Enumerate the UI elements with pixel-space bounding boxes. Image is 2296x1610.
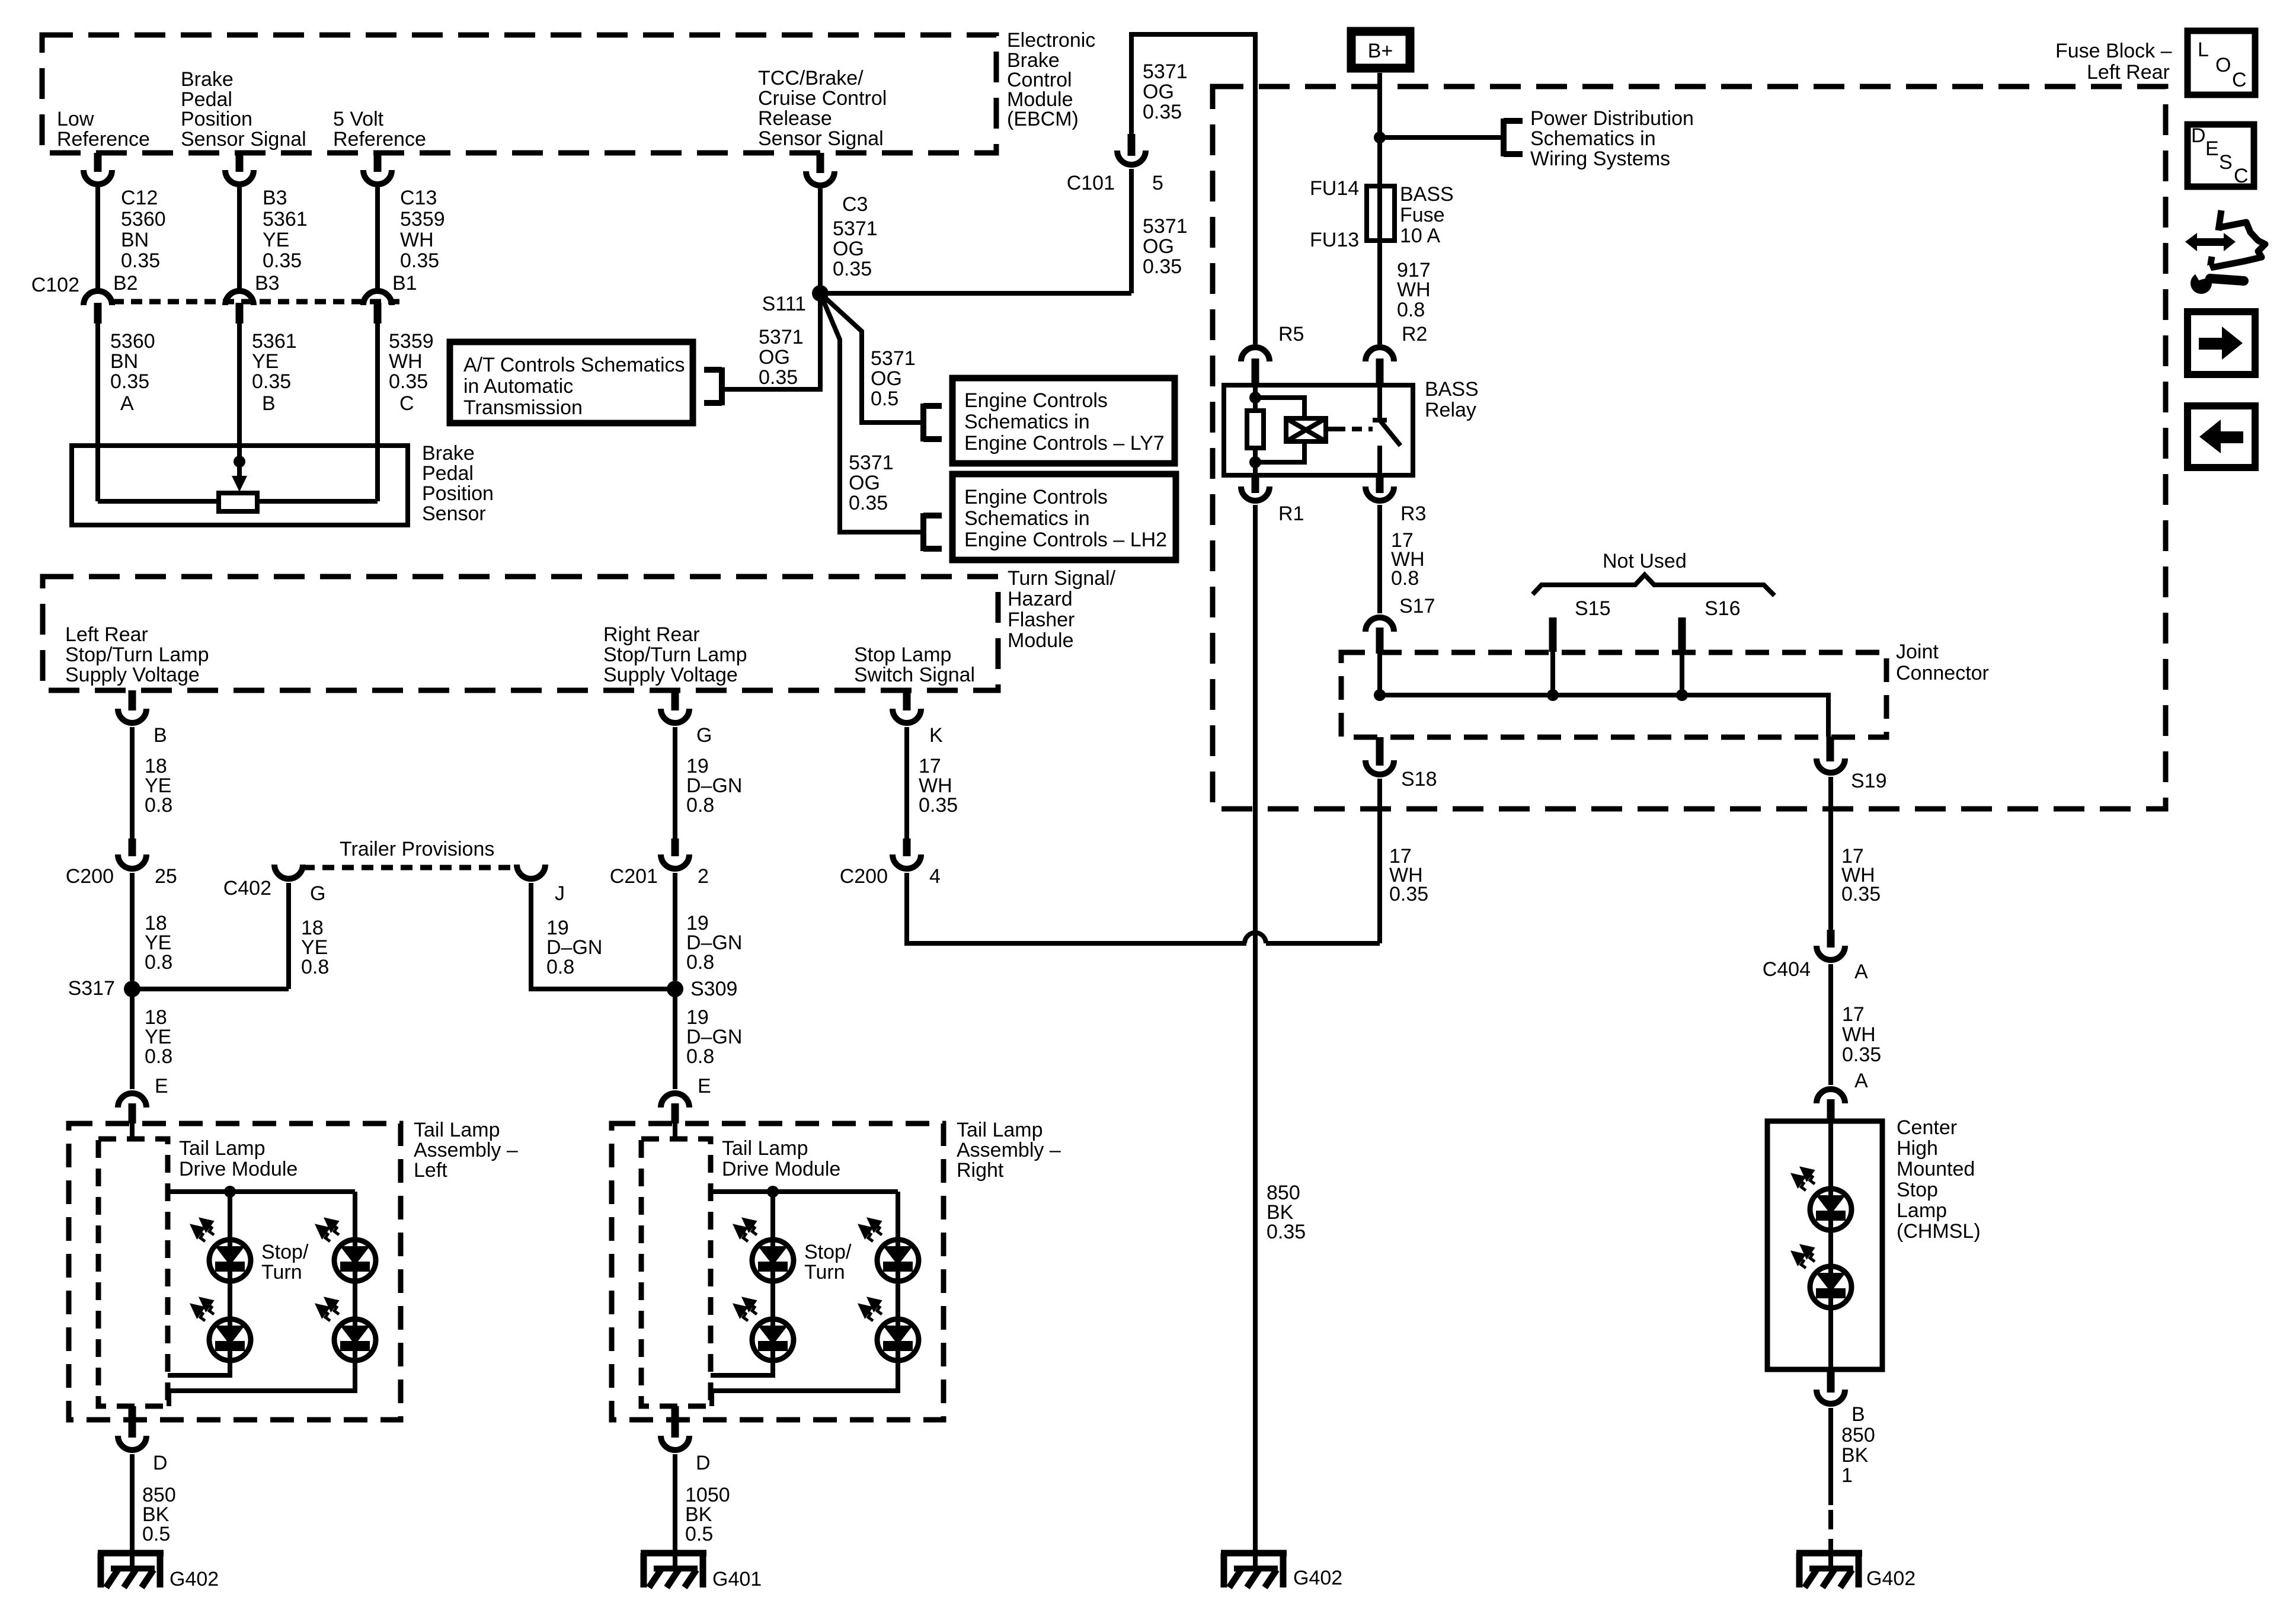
svg-text:G402: G402 bbox=[1866, 1567, 1916, 1590]
svg-text:Engine Controls – LH2: Engine Controls – LH2 bbox=[964, 529, 1167, 551]
pin C200-25 stub bbox=[129, 838, 136, 856]
svg-text:5 Volt: 5 Volt bbox=[333, 108, 384, 130]
svg-text:S317: S317 bbox=[68, 977, 115, 1000]
wire 5361 YE lower bbox=[237, 324, 242, 457]
svg-text:Connector: Connector bbox=[1896, 662, 1989, 684]
forward arrow bbox=[2199, 338, 2223, 350]
svg-text:D: D bbox=[2191, 124, 2206, 147]
back arrow bbox=[2221, 431, 2243, 443]
svg-text:0.8: 0.8 bbox=[1397, 299, 1425, 321]
svg-text:K: K bbox=[929, 724, 943, 747]
svg-text:0.35: 0.35 bbox=[110, 370, 149, 393]
svg-text:B: B bbox=[154, 724, 167, 747]
wire 5359 WH upper bbox=[375, 187, 380, 291]
svg-text:0.8: 0.8 bbox=[686, 1045, 714, 1068]
fuse block dashed box bbox=[1213, 87, 2166, 809]
svg-text:Joint: Joint bbox=[1896, 641, 1939, 663]
wiper junction dot bbox=[234, 456, 245, 468]
pin E stub bbox=[129, 1103, 136, 1124]
wire S19 17 WH 0.35 bbox=[1828, 777, 1833, 930]
svg-text:Power Distribution: Power Distribution bbox=[1530, 107, 1694, 130]
svg-text:Low: Low bbox=[57, 108, 94, 130]
svg-text:High: High bbox=[1897, 1137, 1938, 1160]
svg-text:0.5: 0.5 bbox=[685, 1523, 713, 1545]
svg-text:C13: C13 bbox=[400, 187, 437, 209]
svg-text:WH: WH bbox=[389, 350, 423, 373]
connector R5 cap bbox=[1241, 347, 1269, 361]
svg-text:Schematics in: Schematics in bbox=[1530, 127, 1656, 150]
wire S17 into joint connector bbox=[1377, 654, 1382, 695]
pin R2 stub bbox=[1376, 359, 1384, 385]
svg-text:5371: 5371 bbox=[759, 326, 804, 348]
LOC icon box bbox=[2188, 31, 2255, 95]
EBCM module dashed box bbox=[42, 35, 996, 153]
splice S309 dot bbox=[667, 981, 683, 997]
svg-text:C102: C102 bbox=[31, 274, 79, 296]
svg-text:R5: R5 bbox=[1278, 323, 1304, 345]
svg-text:0.35: 0.35 bbox=[849, 492, 888, 514]
wire S16 leg bbox=[1680, 651, 1684, 695]
svg-text:G402: G402 bbox=[1293, 1567, 1342, 1589]
svg-text:E: E bbox=[155, 1075, 168, 1097]
wire inside sensor right bbox=[257, 499, 378, 504]
svg-text:S17: S17 bbox=[1399, 595, 1435, 617]
pin C200-4 stub bbox=[903, 838, 911, 856]
svg-text:J: J bbox=[555, 882, 565, 905]
CHMSL lamp box bbox=[1767, 1121, 1882, 1369]
svg-text:1: 1 bbox=[1841, 1464, 1853, 1487]
svg-text:0.8: 0.8 bbox=[686, 951, 714, 974]
wire hop to S18 corner bbox=[1266, 941, 1380, 946]
wire 5360 BN upper bbox=[95, 187, 100, 291]
svg-text:0.35: 0.35 bbox=[252, 370, 291, 393]
connector R2 cap bbox=[1366, 347, 1394, 361]
svg-text:S111: S111 bbox=[762, 293, 806, 315]
svg-text:Brake: Brake bbox=[181, 68, 234, 91]
pin B3 stub bbox=[236, 153, 244, 172]
connector CHMSL cap bbox=[1817, 1089, 1845, 1103]
ground symbol bbox=[98, 1553, 164, 1587]
svg-text:25: 25 bbox=[155, 865, 177, 888]
svg-text:Flasher: Flasher bbox=[1008, 609, 1075, 631]
svg-text:Hazard: Hazard bbox=[1008, 588, 1073, 610]
svg-text:5371: 5371 bbox=[871, 347, 916, 370]
svg-text:Right Rear: Right Rear bbox=[603, 623, 700, 646]
wiper arrow bbox=[237, 462, 242, 476]
svg-text:0.35: 0.35 bbox=[1389, 883, 1428, 905]
svg-text:Sensor Signal: Sensor Signal bbox=[758, 127, 884, 150]
svg-text:0.35: 0.35 bbox=[1841, 883, 1881, 905]
svg-text:0.8: 0.8 bbox=[301, 956, 329, 978]
svg-text:Schematics in: Schematics in bbox=[964, 507, 1090, 530]
svg-text:A: A bbox=[120, 392, 134, 415]
svg-text:0.35: 0.35 bbox=[1842, 1044, 1881, 1066]
tail lamp assembly right (shapes reuse) bbox=[612, 1093, 944, 1587]
svg-text:Stop Lamp: Stop Lamp bbox=[854, 644, 951, 666]
connector R1 cup bbox=[1241, 486, 1269, 501]
svg-text:A/T Controls Schematics: A/T Controls Schematics bbox=[463, 354, 685, 376]
svg-text:Transmission: Transmission bbox=[463, 396, 583, 419]
svg-text:Tail Lamp: Tail Lamp bbox=[179, 1137, 266, 1160]
svg-text:Switch Signal: Switch Signal bbox=[854, 664, 975, 686]
svg-text:5360: 5360 bbox=[110, 330, 155, 353]
svg-text:YE: YE bbox=[263, 229, 289, 251]
svg-text:BN: BN bbox=[121, 229, 149, 251]
svg-text:S19: S19 bbox=[1851, 770, 1887, 792]
connector D cup bbox=[118, 1436, 146, 1450]
svg-text:Reference: Reference bbox=[57, 128, 150, 151]
svg-text:0.35: 0.35 bbox=[1143, 101, 1182, 123]
svg-text:Assembly –: Assembly – bbox=[414, 1139, 518, 1161]
node relay dot lower bbox=[1249, 456, 1261, 468]
power distribution reference bracket bbox=[1504, 119, 1523, 156]
LY7 reference bracket bbox=[923, 404, 942, 441]
pin C12 stub bbox=[94, 153, 102, 172]
splice S111 dot bbox=[812, 285, 829, 302]
connector G cup bbox=[661, 709, 689, 723]
svg-text:0.8: 0.8 bbox=[686, 794, 714, 817]
svg-text:S18: S18 bbox=[1401, 768, 1437, 790]
svg-text:WH: WH bbox=[400, 229, 434, 251]
svg-text:0.35: 0.35 bbox=[833, 258, 872, 280]
svg-text:FU13: FU13 bbox=[1310, 229, 1359, 251]
LED stop/turn 2 bbox=[194, 1300, 251, 1361]
connector C402 cup bbox=[274, 865, 303, 879]
svg-text:BASS: BASS bbox=[1425, 378, 1479, 401]
svg-text:D: D bbox=[696, 1452, 711, 1474]
svg-text:0.5: 0.5 bbox=[142, 1523, 170, 1545]
svg-text:BASS: BASS bbox=[1400, 183, 1454, 206]
svg-text:B+: B+ bbox=[1368, 40, 1393, 62]
svg-text:Tail Lamp: Tail Lamp bbox=[957, 1119, 1043, 1141]
wire 850 BK 0.5 to ground bbox=[130, 1454, 135, 1553]
svg-text:Supply Voltage: Supply Voltage bbox=[65, 664, 200, 686]
svg-text:2: 2 bbox=[698, 865, 709, 888]
svg-text:B1: B1 bbox=[392, 272, 417, 295]
wire B+ down to fuse bbox=[1377, 73, 1382, 186]
wire inside sensor left bbox=[98, 499, 219, 504]
svg-text:in Automatic: in Automatic bbox=[463, 375, 573, 398]
svg-text:Sensor Signal: Sensor Signal bbox=[181, 128, 306, 151]
svg-text:Cruise Control: Cruise Control bbox=[758, 87, 887, 110]
LED stop/turn 3 bbox=[319, 1221, 376, 1281]
svg-text:5371: 5371 bbox=[1143, 60, 1188, 83]
svg-text:Position: Position bbox=[422, 482, 494, 505]
svg-text:5371: 5371 bbox=[1143, 215, 1188, 238]
svg-text:Release: Release bbox=[758, 107, 832, 130]
svg-text:OG: OG bbox=[849, 472, 880, 494]
svg-text:0.35: 0.35 bbox=[389, 370, 428, 393]
svg-text:Pedal: Pedal bbox=[422, 462, 474, 485]
wire 850 BK 1 dashed tail bbox=[1828, 1510, 1833, 1553]
svg-text:0.8: 0.8 bbox=[546, 956, 574, 978]
wire R1 to ground bbox=[1253, 505, 1258, 1553]
pin C404 stub bbox=[1827, 930, 1835, 948]
svg-text:FU14: FU14 bbox=[1310, 177, 1359, 200]
svg-text:Stop: Stop bbox=[1897, 1179, 1938, 1201]
svg-text:5: 5 bbox=[1152, 172, 1163, 194]
svg-text:R3: R3 bbox=[1400, 502, 1426, 525]
engine controls LH2 box bbox=[952, 474, 1176, 560]
svg-text:Stop/: Stop/ bbox=[261, 1241, 309, 1263]
wire S317 to E bbox=[130, 989, 135, 1089]
connector C102 dashed line bbox=[113, 299, 403, 305]
LED CHMSL 2 bbox=[1795, 1247, 1851, 1308]
pin C stub bbox=[374, 303, 382, 324]
engine controls LY7 box bbox=[952, 378, 1175, 463]
back arrow icon box bbox=[2188, 406, 2255, 468]
node S17 bus dot bbox=[1374, 689, 1386, 701]
svg-text:WH: WH bbox=[1397, 279, 1431, 301]
pin K stub bbox=[903, 690, 911, 710]
svg-text:Relay: Relay bbox=[1425, 399, 1476, 421]
wire 18 YE 0.8 to S317 bbox=[130, 873, 135, 981]
wire E into drive module bbox=[130, 1124, 135, 1139]
pin A stub bbox=[94, 303, 102, 324]
svg-text:0.35: 0.35 bbox=[400, 249, 439, 272]
svg-text:C101: C101 bbox=[1067, 172, 1115, 194]
pin S16 stub bbox=[1678, 617, 1686, 652]
joint connector bus bar bbox=[1380, 695, 1828, 737]
forward arrow icon box bbox=[2188, 312, 2255, 375]
svg-text:B2: B2 bbox=[113, 272, 138, 295]
connector CHMSL-B cup bbox=[1817, 1390, 1845, 1404]
pin CHMSL-B stub bbox=[1827, 1369, 1835, 1393]
wire to power distribution bracket bbox=[1380, 135, 1504, 140]
connector B cup bbox=[118, 709, 146, 723]
connector C200-4 cup bbox=[893, 854, 921, 869]
connector C3 cup bbox=[806, 171, 834, 185]
svg-text:C12: C12 bbox=[121, 187, 158, 209]
svg-text:OG: OG bbox=[871, 367, 902, 390]
tail lamp drive module dashed box bbox=[98, 1139, 168, 1406]
svg-text:B3: B3 bbox=[255, 272, 280, 295]
svg-text:D: D bbox=[153, 1452, 168, 1474]
svg-text:Drive Module: Drive Module bbox=[179, 1158, 298, 1180]
svg-text:0.35: 0.35 bbox=[263, 249, 302, 272]
svg-text:5361: 5361 bbox=[263, 208, 308, 231]
svg-text:G: G bbox=[696, 724, 712, 747]
connector C200-25 cup bbox=[118, 854, 146, 869]
wrench icon bbox=[2191, 265, 2244, 294]
svg-text:BK: BK bbox=[1841, 1444, 1869, 1467]
pin B stub bbox=[129, 690, 136, 710]
svg-text:Stop/: Stop/ bbox=[804, 1241, 852, 1263]
wire 17 WH 0.35 (K) bbox=[904, 727, 909, 838]
svg-text:5361: 5361 bbox=[252, 330, 297, 353]
wire 17 WH 0.35 (C404 to lamp) bbox=[1828, 964, 1833, 1085]
LED CHMSL 1 bbox=[1795, 1170, 1851, 1230]
vehicle view icon bbox=[2210, 210, 2265, 268]
svg-text:C: C bbox=[2232, 69, 2247, 91]
svg-text:Tail Lamp: Tail Lamp bbox=[722, 1137, 808, 1160]
svg-text:R2: R2 bbox=[1402, 323, 1427, 345]
svg-text:10 A: 10 A bbox=[1400, 225, 1440, 247]
not used brace bbox=[1533, 575, 1774, 596]
svg-text:Turn Signal/: Turn Signal/ bbox=[1008, 567, 1116, 590]
wire C101 upper to top bbox=[1131, 34, 1255, 344]
svg-text:C200: C200 bbox=[840, 865, 888, 888]
svg-text:0.8: 0.8 bbox=[145, 1045, 172, 1068]
svg-text:S15: S15 bbox=[1575, 597, 1611, 620]
wire 19 D-GN 0.8 (G) bbox=[673, 727, 677, 838]
svg-text:Not Used: Not Used bbox=[1603, 550, 1687, 572]
wire 917 WH bbox=[1377, 241, 1382, 344]
pin CHMSL-A stub bbox=[1827, 1099, 1835, 1121]
svg-text:E: E bbox=[2205, 137, 2219, 160]
wire 19 D-GN 0.8 to S309 bbox=[673, 873, 677, 981]
brake pedal position sensor box bbox=[72, 446, 408, 525]
relay coil crossed box bbox=[1286, 418, 1326, 441]
svg-text:Turn: Turn bbox=[804, 1261, 845, 1283]
wire C402 drop bbox=[286, 883, 291, 989]
svg-text:Drive Module: Drive Module bbox=[722, 1158, 840, 1180]
svg-text:R1: R1 bbox=[1278, 502, 1304, 525]
svg-text:C201: C201 bbox=[610, 865, 658, 888]
LH2 reference bracket bbox=[923, 513, 942, 551]
pin R5 stub bbox=[1252, 359, 1259, 385]
node S15 bus dot bbox=[1547, 689, 1559, 701]
connector J cup bbox=[517, 865, 545, 879]
wire 5360 BN lower bbox=[95, 324, 100, 501]
svg-text:Center: Center bbox=[1897, 1116, 1957, 1139]
wire S309 to E bbox=[673, 989, 677, 1089]
pin C101-5 stub bbox=[1128, 134, 1136, 156]
connector C102-B3 cap bbox=[225, 291, 254, 305]
connector S18 cup bbox=[1366, 760, 1394, 774]
svg-text:0.35: 0.35 bbox=[1267, 1221, 1306, 1243]
wire LED supply bus bbox=[168, 1192, 355, 1240]
fuse FU14/FU13 element bbox=[1367, 186, 1395, 241]
pin C13 stub bbox=[374, 153, 382, 172]
relay box bbox=[1224, 385, 1413, 475]
pin D stub bbox=[129, 1406, 136, 1438]
svg-text:C402: C402 bbox=[223, 877, 271, 900]
joint connector dashed box bbox=[1341, 652, 1886, 737]
wire LED return 2 bbox=[169, 1361, 355, 1406]
wire crossover hop bbox=[1245, 933, 1266, 943]
svg-text:WH: WH bbox=[1842, 1023, 1876, 1046]
pin C3 stub bbox=[817, 153, 824, 173]
svg-text:4: 4 bbox=[929, 865, 941, 888]
svg-text:Trailer Provisions: Trailer Provisions bbox=[340, 838, 494, 860]
svg-text:Module: Module bbox=[1008, 629, 1074, 652]
svg-text:5360: 5360 bbox=[121, 208, 166, 231]
connector S19 cup bbox=[1817, 758, 1845, 773]
connector C101 cup bbox=[1117, 151, 1146, 165]
relay actuating dashed link bbox=[1335, 427, 1373, 431]
svg-text:Engine Controls: Engine Controls bbox=[964, 486, 1108, 508]
connector C201-2 cup bbox=[661, 854, 689, 869]
svg-text:Supply Voltage: Supply Voltage bbox=[603, 664, 738, 686]
svg-text:5371: 5371 bbox=[833, 217, 878, 240]
wire 5371 OG from C3 bbox=[818, 188, 823, 293]
svg-text:Fuse: Fuse bbox=[1400, 204, 1445, 226]
wire S111 to C101 riser bbox=[820, 291, 1131, 296]
svg-text:Position: Position bbox=[181, 108, 252, 130]
svg-text:B: B bbox=[1851, 1403, 1865, 1426]
wire S111 to LH2 bbox=[820, 293, 923, 532]
svg-text:Mounted: Mounted bbox=[1897, 1158, 1975, 1180]
flasher module dashed box bbox=[43, 577, 998, 690]
node B+ junction dot bbox=[1374, 132, 1386, 143]
svg-text:0.8: 0.8 bbox=[145, 951, 172, 974]
svg-text:0.35: 0.35 bbox=[121, 249, 160, 272]
svg-text:C404: C404 bbox=[1763, 958, 1811, 981]
wire S18 17 WH 0.35 bbox=[1377, 779, 1382, 943]
svg-text:Stop/Turn Lamp: Stop/Turn Lamp bbox=[65, 644, 209, 666]
relay resistor bbox=[1247, 411, 1264, 448]
wire S111 to LY7 bbox=[820, 293, 923, 422]
svg-text:Reference: Reference bbox=[333, 128, 426, 151]
pin C201-2 stub bbox=[671, 838, 679, 856]
svg-text:OG: OG bbox=[759, 346, 790, 369]
svg-text:Brake: Brake bbox=[422, 442, 475, 465]
DESC icon box bbox=[2188, 124, 2254, 187]
svg-text:A: A bbox=[1854, 1070, 1868, 1092]
wire 18 YE 0.8 (B) bbox=[130, 727, 135, 838]
pin R1 stub bbox=[1252, 475, 1259, 493]
relay coil stub bbox=[1326, 427, 1335, 431]
wire CHMSL internal bbox=[1828, 1121, 1833, 1369]
svg-text:0.8: 0.8 bbox=[145, 794, 172, 817]
svg-text:E: E bbox=[698, 1075, 711, 1097]
wire LED return 1 bbox=[168, 1361, 230, 1375]
connector C12 cup bbox=[84, 170, 112, 184]
connector C404 cup bbox=[1817, 946, 1845, 960]
svg-text:Schematics in: Schematics in bbox=[964, 411, 1090, 433]
pin R3 stub bbox=[1376, 475, 1384, 493]
svg-text:0.5: 0.5 bbox=[871, 388, 898, 410]
svg-text:Sensor: Sensor bbox=[422, 502, 486, 525]
svg-text:Turn: Turn bbox=[261, 1261, 302, 1283]
connector E cap bbox=[118, 1093, 146, 1108]
svg-text:G402: G402 bbox=[170, 1568, 219, 1590]
wire LED column 1 bbox=[228, 1240, 232, 1361]
svg-text:C: C bbox=[399, 392, 414, 415]
svg-text:850: 850 bbox=[1841, 1424, 1875, 1446]
svg-text:Tail Lamp: Tail Lamp bbox=[414, 1119, 500, 1141]
svg-text:G: G bbox=[310, 882, 325, 905]
svg-text:Right: Right bbox=[957, 1159, 1004, 1182]
svg-text:Left Rear: Left Rear bbox=[65, 623, 148, 646]
svg-text:0.35: 0.35 bbox=[1143, 255, 1182, 278]
connector R3 cup bbox=[1366, 486, 1394, 501]
LED stop/turn 1 bbox=[194, 1221, 251, 1281]
splice S317 dot bbox=[124, 981, 140, 997]
wire S111 to A/T bracket bbox=[722, 293, 820, 389]
resistor element bbox=[219, 493, 257, 511]
svg-text:(CHMSL): (CHMSL) bbox=[1897, 1220, 1981, 1243]
svg-text:Engine Controls: Engine Controls bbox=[964, 389, 1108, 412]
svg-text:YE: YE bbox=[252, 350, 279, 373]
relay switch contact bbox=[1373, 385, 1387, 420]
svg-text:0.35: 0.35 bbox=[919, 794, 958, 817]
pin S18 stub bbox=[1376, 737, 1384, 766]
pin S15 stub bbox=[1549, 617, 1557, 652]
ground symbol CHMSL bbox=[1796, 1553, 1862, 1587]
svg-text:Left: Left bbox=[414, 1159, 447, 1182]
connector S17 cap bbox=[1366, 617, 1394, 632]
wire J drop to S309 bbox=[531, 883, 675, 989]
svg-text:0.35: 0.35 bbox=[759, 366, 798, 389]
relay coil branch wires bbox=[1255, 385, 1304, 475]
svg-text:O: O bbox=[2215, 54, 2231, 76]
pin B stub bbox=[236, 303, 244, 324]
svg-text:Engine Controls – LY7: Engine Controls – LY7 bbox=[964, 432, 1165, 454]
svg-text:OG: OG bbox=[833, 238, 864, 260]
svg-text:Left Rear: Left Rear bbox=[2087, 61, 2170, 84]
